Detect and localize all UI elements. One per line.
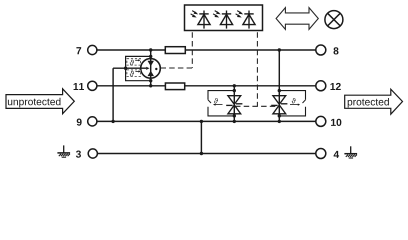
unprotected arrow label [6,89,74,114]
junction U1 bottom / line 11 [149,84,152,87]
arrester symbol A2 [213,11,233,29]
U1 upper electrode triangle [148,61,155,66]
thermal disconnect bracket (GDT) [126,56,151,80]
thermal fuse F1 dashed box [127,59,141,65]
wire line 11-12 [97,85,316,87]
protected arrow label [345,89,403,114]
wire GDT electrode vertical (line 7 to line 11) [150,50,152,86]
junction earth branch / line 3-4 [200,152,203,155]
terminal 9 [88,117,97,126]
wire vertical suppressor D1 branch (line 11 to line 9) [233,86,235,122]
junction U1 top / line 7 [149,48,152,51]
D1 theta label [214,98,218,103]
arrester symbol A3 [236,11,256,29]
terminal 7 [88,45,97,54]
junction trigger wire / line 9 [111,120,114,123]
wire vertical suppressor D2 branch (line 7 to line 9) [278,50,280,121]
junction F1/F2 bracket / trigger wire [124,67,127,70]
junction D2 / line 7 [278,48,281,51]
thermal fuse F2 dashed box [127,70,141,77]
terminal 3 [88,149,97,158]
wire vertical ground line to earth line [200,121,202,153]
double arrow symbol [276,8,318,30]
D1 thermal bracket [208,91,234,100]
gas discharge tube U1 circle [141,59,161,79]
junction D1 / line 11 [233,84,236,87]
mech linkage dashed horizontal to GDT [161,67,193,69]
junction U1 bracket top [149,55,152,58]
resistor R1 (line 7) [165,47,185,54]
terminal 10 [316,116,326,126]
D2 thermal bracket [279,91,305,100]
wire line 9-10 [97,120,316,122]
terminal 11 [88,81,97,90]
F2 theta label [130,71,134,77]
wire mid-electrode horizontal [113,67,146,69]
indicator box [185,5,263,31]
junction D2 bracket top [278,89,281,92]
junction dots [111,48,281,155]
wire line 7-8 [97,49,316,51]
F2 arrow [135,71,138,73]
terminal 4 [316,149,326,159]
junction D1 bracket bottom [233,114,236,117]
resistor R2 (line 11) [165,83,184,90]
F1 arrow [135,59,138,61]
ground symbol right [344,146,357,158]
wire vertical mid-electrode to ground line [112,68,114,121]
suppressor D1 (left) [226,96,242,114]
arrester symbol A1 [191,11,211,29]
junction line 9 / earth branch [200,120,203,123]
mech linkage dashed horizontal between suppressors [235,105,279,107]
junction D1 bracket top [233,89,236,92]
terminal 12 [316,81,326,91]
junction U1 bracket bottom [149,79,152,82]
U1 trigger arrowhead [146,67,149,70]
suppressor D2 (right) [271,96,287,114]
wire line 3-4 [97,153,316,155]
indicator lamp [325,11,343,29]
terminal 8 [316,45,326,55]
U1 lower electrode triangle [148,71,155,77]
junction D2 / line 9 [278,120,281,123]
ground symbol left [57,145,70,157]
U1 gas-filled dot [155,68,157,70]
F1 theta label [130,60,134,66]
mech linkage dashed vertical left [191,32,193,68]
junction D1 / line 9 [233,120,236,123]
mech linkage dashed vertical right [256,32,258,106]
D2 theta label [292,98,296,103]
junction D2 bracket bottom [278,114,281,117]
